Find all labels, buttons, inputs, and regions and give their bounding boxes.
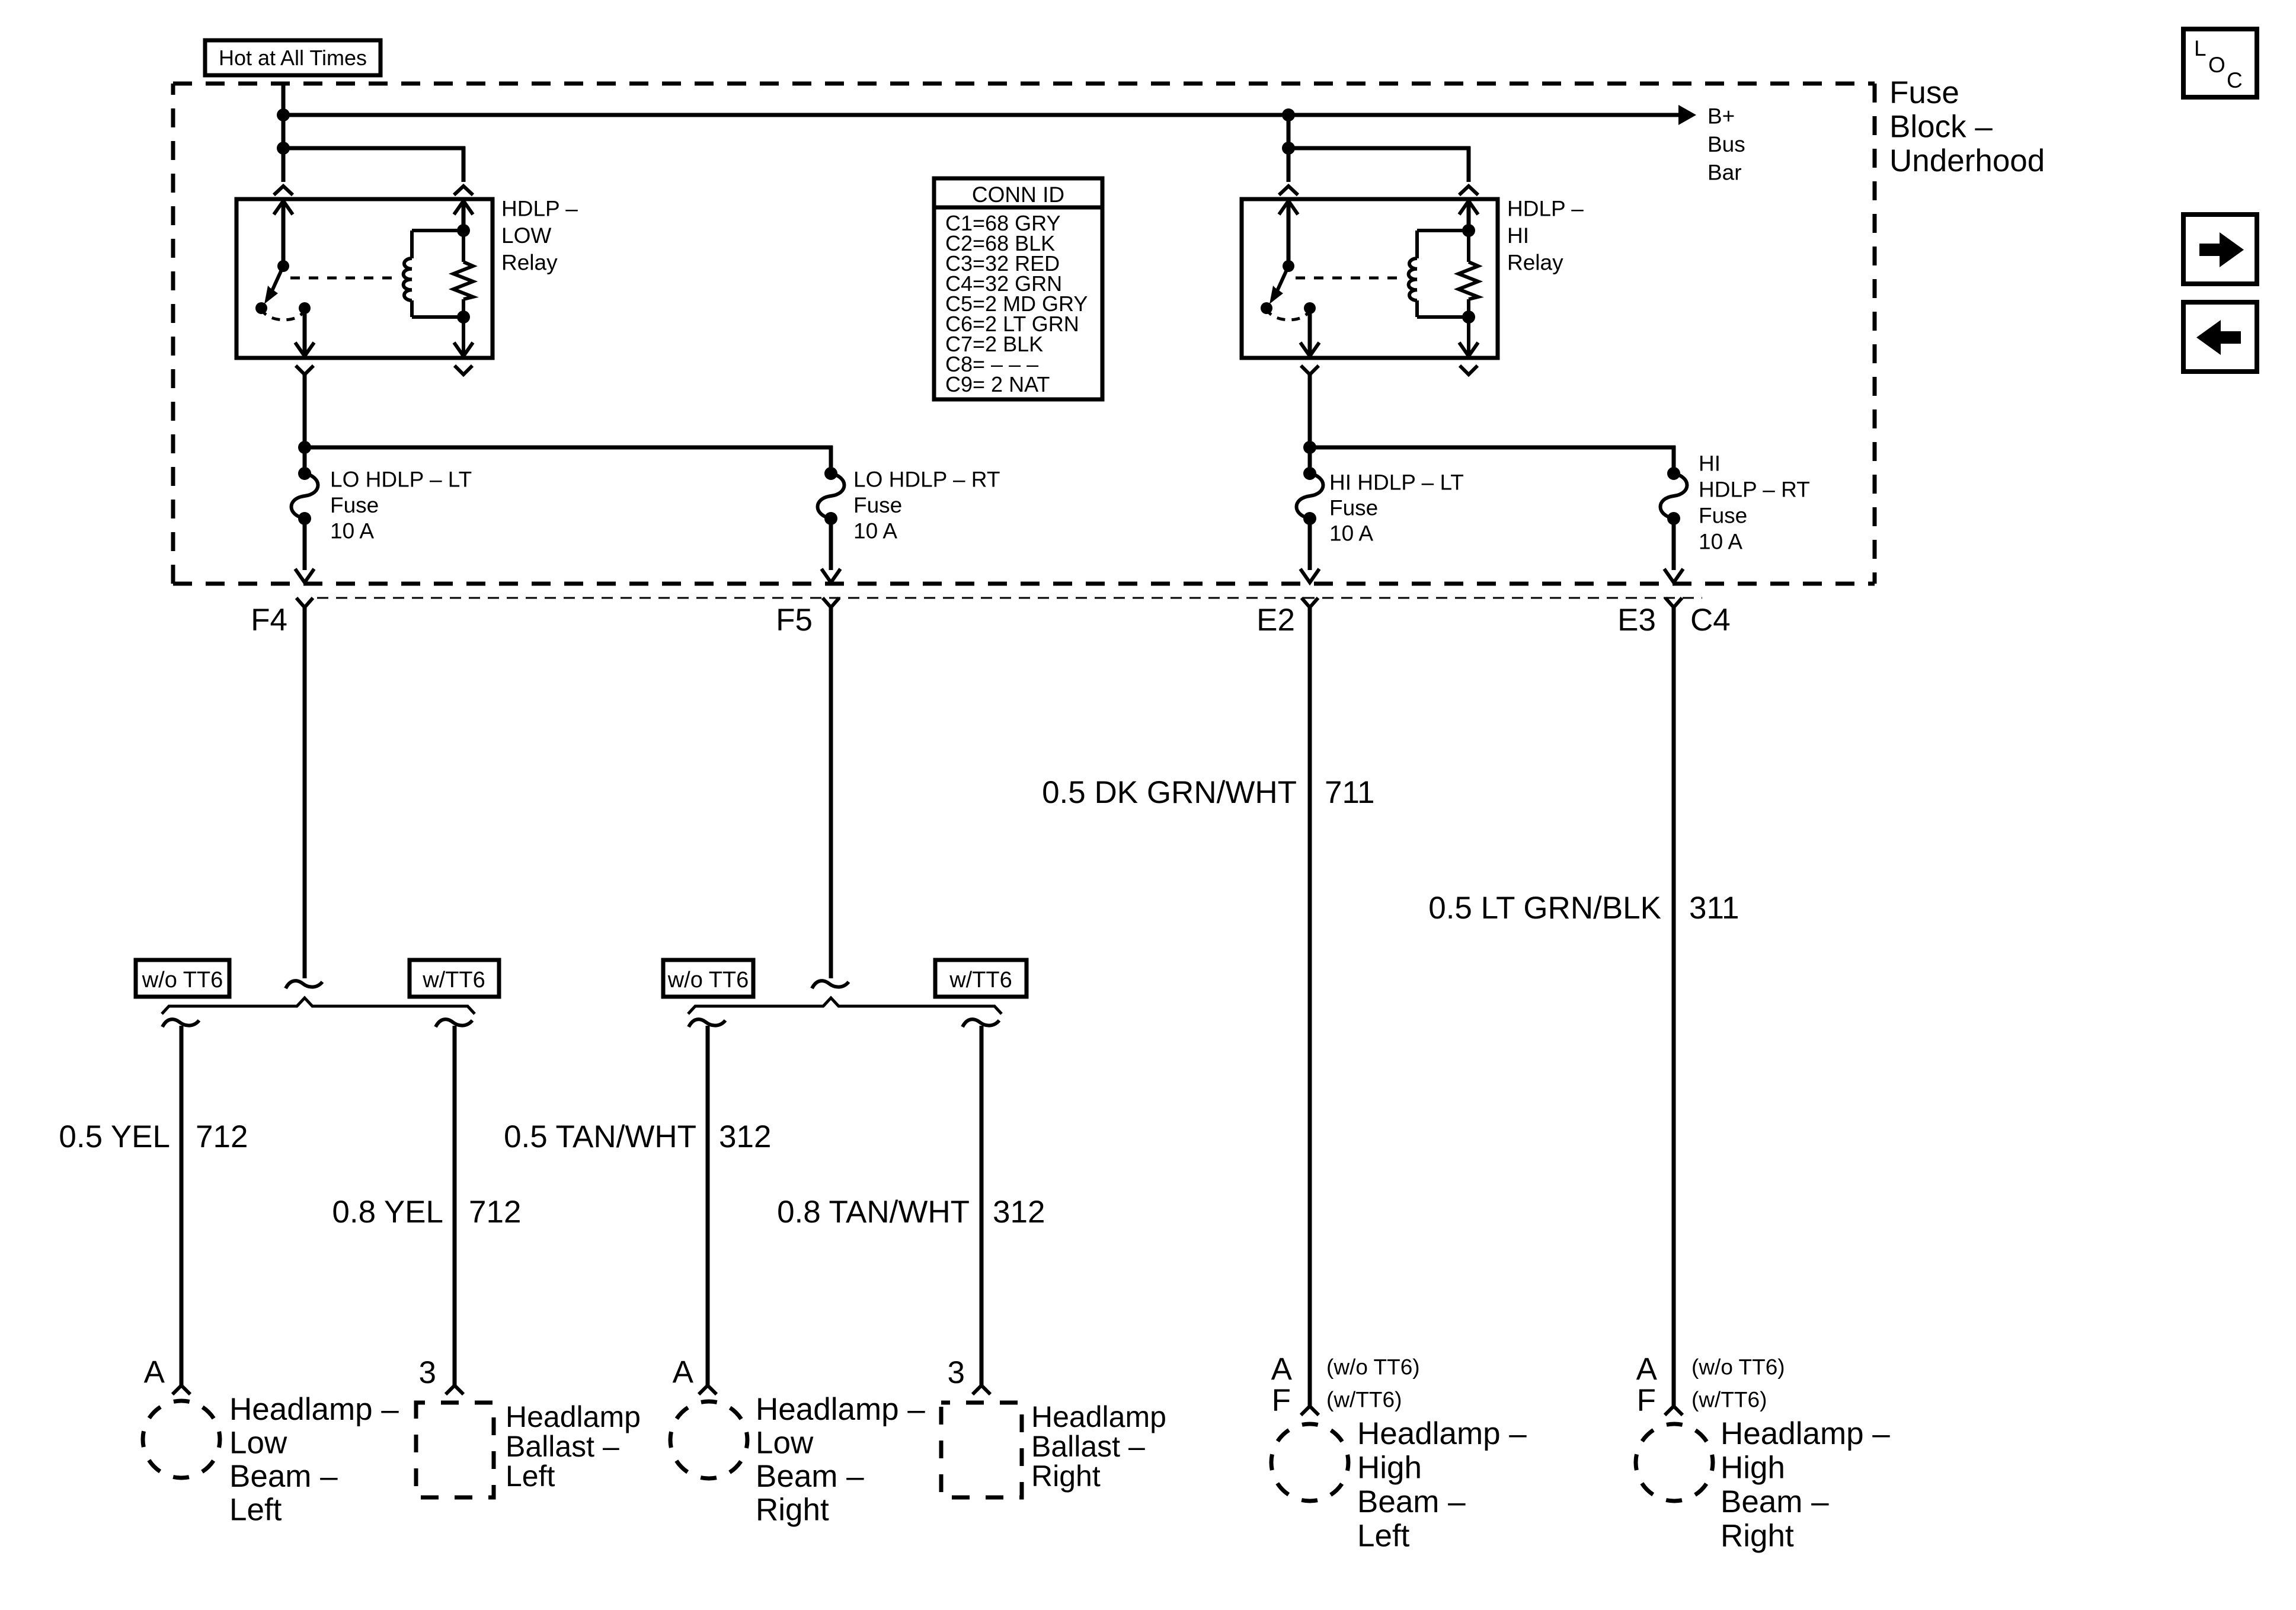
svg-text:HI HDLP – LT: HI HDLP – LT bbox=[1329, 470, 1464, 495]
svg-text:Right: Right bbox=[1721, 1519, 1794, 1554]
wire: B+ bus bar bbox=[283, 113, 1678, 117]
junction: B+ bus tap bbox=[277, 108, 290, 121]
svg-text:312: 312 bbox=[719, 1119, 771, 1154]
junction: high beam fuse branch bbox=[1303, 441, 1316, 454]
connector fork at ballast left bbox=[446, 1385, 463, 1394]
svg-text:Fuse: Fuse bbox=[853, 493, 902, 517]
svg-text:Right: Right bbox=[1031, 1459, 1101, 1493]
wire: LOW relay output to fuses bbox=[303, 375, 307, 447]
svg-text:CONN ID: CONN ID bbox=[972, 183, 1064, 207]
connector chevron: HI relay pin 2 bbox=[1459, 186, 1478, 195]
svg-text:(w/o TT6): (w/o TT6) bbox=[1326, 1355, 1420, 1379]
svg-text:LOW: LOW bbox=[501, 223, 551, 248]
fuse block underhood dashed boundary bbox=[173, 82, 1875, 86]
wire: fuse to F4 terminal bbox=[303, 518, 307, 570]
branch wire: 0.8 YEL 712 to ballast left bbox=[436, 1019, 472, 1027]
svg-text:A: A bbox=[144, 1355, 165, 1390]
svg-text:w/o TT6: w/o TT6 bbox=[142, 968, 223, 993]
ballast box: Headlamp Ballast Right bbox=[941, 1403, 1022, 1497]
svg-text:E2: E2 bbox=[1256, 603, 1295, 638]
next page arrow icon bbox=[2183, 215, 2257, 284]
ballast box: Headlamp Ballast Left bbox=[416, 1403, 494, 1497]
svg-text:HI: HI bbox=[1699, 452, 1721, 476]
svg-text:F: F bbox=[1272, 1383, 1291, 1418]
svg-text:Bus: Bus bbox=[1707, 132, 1745, 156]
lamp: Headlamp Low Beam Right bbox=[670, 1401, 747, 1478]
svg-text:3: 3 bbox=[419, 1355, 436, 1390]
svg-text:Block –: Block – bbox=[1889, 110, 1993, 145]
svg-text:L: L bbox=[2194, 36, 2207, 60]
svg-text:High: High bbox=[1357, 1451, 1422, 1486]
arrow into F5 bbox=[821, 569, 840, 582]
junction: low relay coil feed bbox=[277, 142, 290, 155]
svg-text:0.5 LT GRN/BLK: 0.5 LT GRN/BLK bbox=[1428, 891, 1661, 926]
fuse F2: LO HDLP-RT Fuse 10 A bbox=[824, 467, 837, 480]
svg-text:Beam –: Beam – bbox=[1357, 1484, 1466, 1519]
svg-text:HDLP –: HDLP – bbox=[1507, 197, 1584, 221]
svg-text:711: 711 bbox=[1325, 775, 1375, 810]
lamp: Headlamp High Beam Left bbox=[1271, 1424, 1348, 1501]
svg-text:Bar: Bar bbox=[1707, 161, 1742, 185]
svg-text:Beam –: Beam – bbox=[229, 1459, 338, 1494]
option box: w/o TT6 (right low beam) bbox=[663, 960, 753, 997]
connector fork at high beam right bbox=[1665, 1406, 1683, 1415]
branch wire: 0.8 TAN/WHT 312 to ballast right bbox=[962, 1019, 999, 1027]
wire: fuse to F5 terminal bbox=[829, 518, 833, 570]
svg-text:0.5 YEL: 0.5 YEL bbox=[59, 1119, 170, 1154]
svg-text:HDLP –: HDLP – bbox=[501, 197, 578, 221]
junction: low beam fuse branch bbox=[298, 441, 311, 454]
svg-text:w/TT6: w/TT6 bbox=[949, 968, 1012, 993]
svg-text:F5: F5 bbox=[776, 603, 813, 638]
svg-text:Left: Left bbox=[1357, 1519, 1410, 1554]
svg-text:0.8 TAN/WHT: 0.8 TAN/WHT bbox=[777, 1195, 970, 1230]
svg-text:HDLP – RT: HDLP – RT bbox=[1699, 478, 1810, 502]
svg-text:10 A: 10 A bbox=[330, 519, 374, 543]
wire E3 down: 0.5 LT GRN/BLK 311 bbox=[1672, 607, 1676, 1406]
wire: fuse to E2 terminal bbox=[1308, 518, 1312, 570]
B+ bus bar arrowhead bbox=[1678, 105, 1696, 125]
option box: w/o TT6 (left low beam) bbox=[136, 960, 229, 997]
connector fork at high beam left bbox=[1301, 1406, 1319, 1415]
svg-text:F: F bbox=[1637, 1383, 1656, 1418]
branch wire: 0.5 TAN/WHT 312 to low beam right bbox=[689, 1019, 725, 1027]
svg-text:311: 311 bbox=[1689, 891, 1739, 926]
svg-text:Headlamp –: Headlamp – bbox=[229, 1392, 399, 1427]
svg-text:LO HDLP – RT: LO HDLP – RT bbox=[853, 468, 1000, 492]
svg-text:Headlamp –: Headlamp – bbox=[1721, 1416, 1890, 1451]
svg-text:Hot at All Times: Hot at All Times bbox=[219, 46, 367, 70]
svg-text:HI: HI bbox=[1507, 223, 1529, 248]
fuse F4sym: HI HDLP-RT Fuse 10 A bbox=[1667, 467, 1680, 480]
option box: w/TT6 (right ballast) bbox=[935, 960, 1027, 997]
lamp: Headlamp High Beam Right bbox=[1636, 1424, 1713, 1501]
connector fork at low beam right bbox=[699, 1385, 717, 1394]
svg-text:Headlamp –: Headlamp – bbox=[1357, 1416, 1527, 1451]
svg-text:Low: Low bbox=[756, 1426, 814, 1461]
wire E2 down: 0.5 DK GRN/WHT 711 bbox=[1308, 607, 1312, 1406]
relay K1: HDLP-LOW Relay bbox=[236, 199, 493, 358]
wire: feed to HDLP-HI relay coil pin bbox=[1288, 146, 1470, 151]
wire: fuse to E3 terminal bbox=[1672, 518, 1676, 570]
LOC page icon bbox=[2183, 29, 2257, 97]
svg-text:(w/o TT6): (w/o TT6) bbox=[1691, 1355, 1785, 1379]
fuse F1: LO HDLP-LT Fuse 10 A bbox=[298, 467, 311, 480]
svg-text:Relay: Relay bbox=[501, 251, 558, 275]
svg-text:LO HDLP – LT: LO HDLP – LT bbox=[330, 468, 472, 492]
svg-text:Fuse: Fuse bbox=[1699, 504, 1747, 528]
wire: HI relay switch feed bbox=[1287, 115, 1291, 182]
terminal E3 / C4 bbox=[1665, 598, 1682, 607]
svg-text:Left: Left bbox=[229, 1493, 282, 1528]
wire: HI relay output to fuses bbox=[1308, 375, 1312, 447]
connector chevron: LOW relay pin 2 bbox=[454, 186, 473, 195]
lamp: Headlamp Low Beam Left bbox=[143, 1401, 220, 1478]
Hot at All Times label box bbox=[205, 40, 380, 75]
wire: battery feed into fuse block bbox=[282, 84, 286, 182]
svg-text:(w/TT6): (w/TT6) bbox=[1691, 1388, 1767, 1412]
svg-text:O: O bbox=[2208, 53, 2225, 77]
arrow into F4 bbox=[295, 569, 314, 582]
fuse F3: HI HDLP-LT Fuse 10 A bbox=[1303, 467, 1316, 480]
branch wire: 0.5 YEL 712 to low beam left bbox=[162, 1019, 199, 1027]
svg-text:Headlamp: Headlamp bbox=[1031, 1400, 1166, 1433]
svg-text:Headlamp –: Headlamp – bbox=[756, 1392, 925, 1427]
CONN ID table bbox=[934, 178, 1102, 399]
svg-text:C: C bbox=[2227, 68, 2243, 92]
connector fork at low beam left bbox=[172, 1385, 190, 1394]
svg-text:Fuse: Fuse bbox=[1329, 496, 1378, 520]
connector face dashed line (C4) bbox=[317, 597, 1702, 599]
svg-text:B+: B+ bbox=[1707, 104, 1735, 129]
svg-text:712: 712 bbox=[469, 1195, 521, 1230]
junction: HI relay coil feed bbox=[1282, 142, 1295, 155]
relay K2: HDLP-HI Relay bbox=[1242, 199, 1498, 358]
svg-text:312: 312 bbox=[993, 1195, 1045, 1230]
svg-text:Underhood: Underhood bbox=[1889, 143, 2045, 178]
option box: w/TT6 (left ballast) bbox=[410, 960, 499, 997]
terminal F4 bbox=[296, 598, 313, 607]
svg-text:Fuse: Fuse bbox=[1889, 75, 1959, 110]
svg-text:0.5 TAN/WHT: 0.5 TAN/WHT bbox=[504, 1119, 696, 1154]
svg-text:Left: Left bbox=[506, 1459, 555, 1493]
svg-text:High: High bbox=[1721, 1451, 1785, 1486]
arrow into E2 bbox=[1300, 569, 1319, 582]
svg-text:F4: F4 bbox=[251, 603, 287, 638]
terminal F5 bbox=[823, 598, 839, 607]
svg-text:Relay: Relay bbox=[1507, 251, 1563, 275]
svg-text:0.8 YEL: 0.8 YEL bbox=[332, 1195, 443, 1230]
svg-text:w/TT6: w/TT6 bbox=[422, 968, 485, 993]
split bracket for F4 wire bbox=[162, 998, 475, 1014]
svg-text:Ballast –: Ballast – bbox=[506, 1430, 619, 1463]
svg-text:Beam –: Beam – bbox=[756, 1459, 864, 1494]
svg-text:10 A: 10 A bbox=[1329, 521, 1373, 546]
svg-text:w/o TT6: w/o TT6 bbox=[667, 968, 749, 993]
svg-text:A: A bbox=[1271, 1352, 1293, 1387]
svg-text:C4: C4 bbox=[1690, 603, 1731, 638]
wire: feed to HDLP-LOW relay coil pin bbox=[283, 146, 465, 151]
svg-text:Fuse: Fuse bbox=[330, 493, 379, 517]
svg-text:(w/TT6): (w/TT6) bbox=[1326, 1388, 1402, 1412]
svg-text:712: 712 bbox=[196, 1119, 248, 1154]
svg-text:A: A bbox=[1636, 1352, 1658, 1387]
svg-text:Ballast –: Ballast – bbox=[1031, 1430, 1145, 1463]
split bracket for F5 wire bbox=[688, 998, 1002, 1014]
terminal E2 bbox=[1302, 598, 1318, 607]
svg-text:Right: Right bbox=[756, 1493, 829, 1528]
svg-text:C9= 2 NAT: C9= 2 NAT bbox=[945, 372, 1050, 396]
connector chevron: HI relay pin 1 bbox=[1279, 186, 1298, 195]
svg-text:Beam –: Beam – bbox=[1721, 1484, 1829, 1519]
connector fork at ballast right bbox=[973, 1385, 990, 1394]
svg-text:A: A bbox=[673, 1355, 694, 1390]
junction: HI relay feed from B+ bus bbox=[1282, 108, 1295, 121]
wire F5 down bbox=[829, 607, 833, 978]
svg-text:Low: Low bbox=[229, 1426, 287, 1461]
wire F4 down bbox=[303, 607, 307, 978]
svg-text:0.5 DK GRN/WHT: 0.5 DK GRN/WHT bbox=[1042, 775, 1297, 810]
svg-text:Headlamp: Headlamp bbox=[506, 1400, 641, 1433]
arrow into E3 bbox=[1664, 569, 1683, 582]
svg-text:10 A: 10 A bbox=[853, 519, 897, 543]
svg-text:3: 3 bbox=[948, 1355, 965, 1390]
svg-text:10 A: 10 A bbox=[1699, 530, 1742, 554]
previous page arrow icon bbox=[2183, 302, 2257, 372]
svg-text:E3: E3 bbox=[1617, 603, 1656, 638]
connector chevron: LOW relay pin 1 bbox=[274, 186, 293, 195]
